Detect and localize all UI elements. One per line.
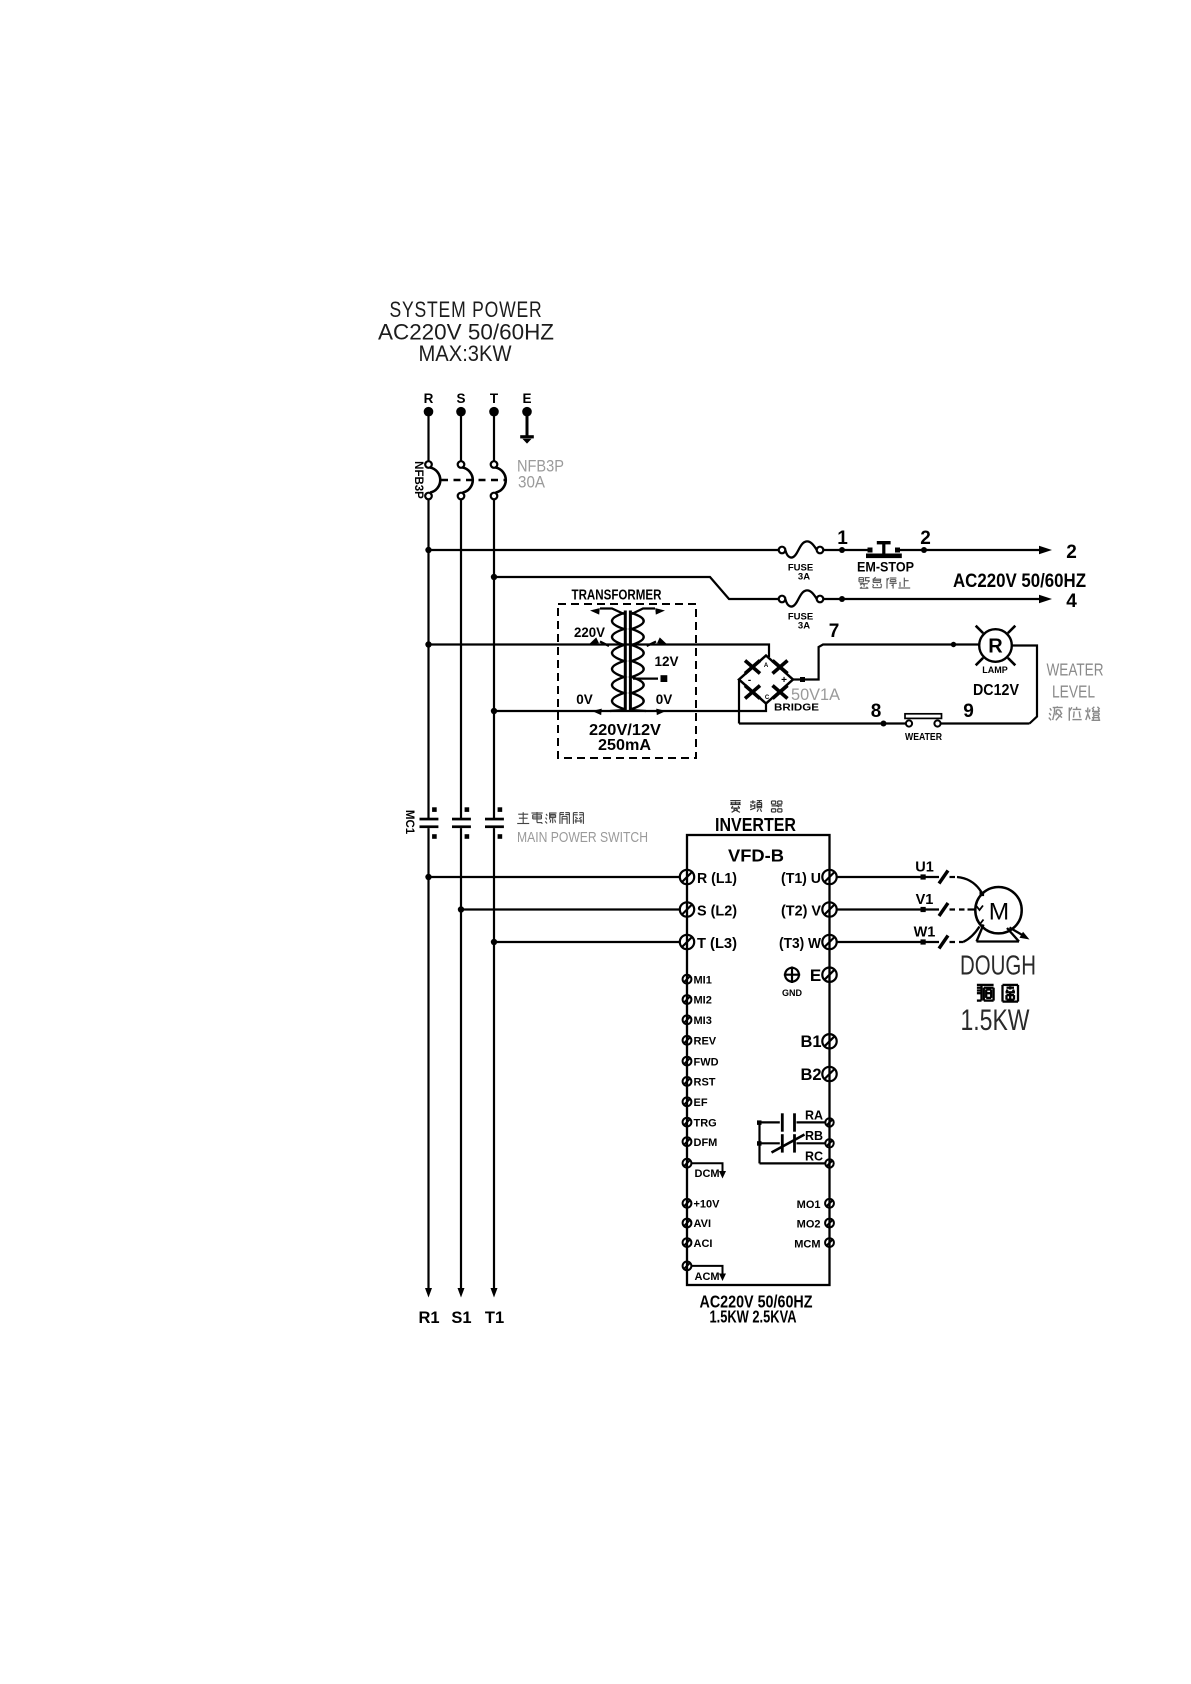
wire R column NFB to MC1 [427,499,429,818]
terminal ACM with common arrow [683,1262,726,1284]
svg-text:3A: 3A [798,572,810,583]
label inverter chinese [730,801,740,813]
wire bottom rail to water switch [739,722,906,724]
terminal MCM [794,1238,834,1250]
terminal REV [683,1036,717,1048]
svg-text:RB: RB [805,1129,823,1143]
transformer secondary coil [632,613,644,709]
breaker linkage dashed line [441,479,506,481]
junction R line2 [425,547,431,553]
wire T column MC1 to bottom [493,828,495,1289]
wire E to ground [526,414,529,436]
svg-text:MAX:3KW: MAX:3KW [419,341,512,366]
wire fuse F2 to arrow 4 [823,598,1040,600]
svg-text:T (L3): T (L3) [697,936,737,952]
junction before lamp [951,642,956,647]
svg-text:R: R [988,636,1003,658]
terminal +10V [683,1199,721,1211]
node 8 [871,701,887,727]
svg-text:2: 2 [920,528,931,549]
svg-text:4: 4 [1066,591,1077,612]
label water level chinese [1049,706,1063,720]
terminal T(L3) [680,935,737,952]
svg-text:W1: W1 [914,925,936,941]
water level switch [905,714,942,743]
svg-text:(T2) V: (T2) V [781,904,821,920]
terminal S(L2) [680,902,737,919]
wire bridge minus down [738,680,740,724]
svg-text:1.5KW 2.5KVA: 1.5KW 2.5KVA [710,1306,797,1326]
svg-text:S (L2): S (L2) [697,904,737,920]
lamp R DC12V [976,626,1016,675]
wire R to R(L1) [429,876,680,878]
svg-text:30A: 30A [518,473,546,492]
breaker NFB3P pole S [458,461,473,499]
svg-text:V1: V1 [916,892,934,908]
svg-text:-: - [748,675,751,686]
terminal TRG [683,1117,717,1129]
svg-text:MC1: MC1 [403,810,415,835]
wire S terminal to NFB [460,414,462,461]
terminal E [522,391,532,417]
terminal MO2 [797,1219,834,1231]
junction R line220V [425,641,431,647]
terminal (T2)V [781,902,837,919]
svg-text:12V: 12V [654,654,678,669]
svg-text:WEATER: WEATER [905,731,942,743]
svg-text:LAMP: LAMP [982,665,1008,675]
svg-text:FWD: FWD [694,1056,719,1068]
label WEATER LEVEL [1047,660,1104,702]
node 1 [837,528,848,553]
svg-text:DCM: DCM [695,1168,720,1180]
svg-text:T: T [490,391,499,406]
svg-text:1.5KW: 1.5KW [961,1004,1031,1037]
connector square on bridge output [800,677,805,682]
terminal MI1 [683,974,712,986]
svg-text:ACM: ACM [695,1271,720,1283]
terminal MO1 [797,1199,834,1211]
svg-text:M: M [989,899,1009,926]
wire EM-STOP to arrow 2 [900,549,1040,551]
arrow line1 output [1039,546,1052,555]
transformer primary coil [612,613,624,709]
ground symbol E [520,435,534,443]
terminal MI3 [683,1015,712,1027]
wire S to S(L2) [461,908,680,910]
svg-text:E: E [522,391,531,406]
wire 0V line T to bridge bottom [494,702,766,711]
bridge rectifier 50V1A [739,656,793,704]
label dough chinese [977,985,994,1001]
svg-text:WEATER: WEATER [1047,660,1104,680]
arrow R1 [425,1288,432,1298]
terminal S [456,391,466,417]
wire S column NFB to MC1 [460,499,462,818]
svg-text:MCM: MCM [794,1238,820,1250]
breaker NFB3P pole R [425,461,440,499]
svg-text:AC220V 50/60HZ: AC220V 50/60HZ [953,571,1086,592]
node 2 [920,528,931,553]
EM-STOP pushbutton [857,541,914,575]
svg-text:EM-STOP: EM-STOP [857,560,914,575]
arrow T1 [491,1288,498,1298]
terminal FWD [683,1056,719,1068]
wire T column NFB to MC1 [493,499,495,818]
svg-text:AVI: AVI [694,1218,712,1230]
svg-text:250mA: 250mA [598,737,651,754]
svg-text:B1: B1 [800,1033,821,1051]
svg-text:DC12V: DC12V [973,682,1020,699]
wire 220V line R to bridge top [429,645,770,658]
svg-text:BRIDGE: BRIDGE [774,703,819,714]
wire line1 R to fuse F1 [429,549,779,551]
terminal (T1)U [781,870,837,887]
svg-text:MI3: MI3 [694,1015,712,1027]
breaker NFB3P pole T [491,461,506,499]
breaker label NFB3P 30A [517,457,564,492]
wire bridge plus to lamp line [793,645,979,680]
relay common wire RC [760,1162,826,1164]
motor M dough mixer [975,887,1021,942]
terminal DFM [683,1137,718,1149]
svg-text:50V1A: 50V1A [791,686,840,704]
title block: system power heading [378,297,554,366]
terminal MI2 [683,995,712,1007]
terminal EF [683,1097,708,1109]
svg-text:VFD-B: VFD-B [728,846,784,866]
transformer dashed box [558,604,696,758]
secondary top lead [632,608,665,614]
contactor MC1 pole T [485,807,504,839]
primary bottom lead [592,709,624,715]
svg-text:DOUGH: DOUGH [960,950,1036,981]
primary 220V tap arrow [589,637,609,646]
svg-text:E: E [810,966,821,985]
terminal RB [805,1129,834,1148]
svg-text:R1: R1 [418,1309,439,1327]
wire W1 phase [837,920,984,949]
terminal RA [805,1109,834,1127]
svg-text:R (L1): R (L1) [697,871,737,887]
svg-text:T1: T1 [485,1309,504,1327]
relay common rail [757,1120,762,1163]
wire water switch to lamp return [941,722,1030,724]
wire R column MC1 to bottom [427,828,429,1289]
secondary bottom lead [632,709,666,715]
contactor MC1 pole S [452,807,471,839]
wire R terminal to NFB [427,414,429,461]
inverter VFD-B box [687,835,830,1285]
svg-text:RC: RC [805,1150,823,1164]
svg-text:ACI: ACI [694,1238,713,1250]
terminal (T3)W [779,935,837,952]
svg-text:1: 1 [837,528,848,549]
svg-text:A: A [764,663,769,669]
terminal T [489,391,499,417]
wire T to T(L3) [494,941,680,943]
junction T to inverter [491,939,497,945]
svg-text:REV: REV [694,1036,717,1048]
relay NO contact RA [760,1113,826,1131]
svg-text:7: 7 [829,621,840,642]
primary top lead [590,608,624,614]
wire fuse F1 to EM-STOP [823,549,868,551]
svg-text:RST: RST [694,1077,716,1089]
svg-text:MO1: MO1 [797,1199,821,1211]
svg-text:DFM: DFM [694,1137,718,1149]
terminal B2 [800,1066,836,1084]
svg-text:NFB3P: NFB3P [412,461,424,499]
svg-text:GND: GND [782,988,803,998]
svg-text:+10V: +10V [694,1199,721,1211]
svg-text:MO2: MO2 [797,1219,821,1231]
svg-text:0V: 0V [576,692,593,707]
svg-text:LEVEL: LEVEL [1052,682,1095,702]
svg-text:9: 9 [963,701,974,722]
junction T line4 [491,574,497,580]
svg-text:EF: EF [694,1097,708,1109]
svg-text:RA: RA [805,1109,823,1123]
wire S column MC1 to bottom [460,828,462,1289]
arrow line2 output [1039,595,1052,604]
svg-text:MAIN POWER SWITCH: MAIN POWER SWITCH [517,829,648,846]
junction R to inverter [425,874,431,880]
svg-text:INVERTER: INVERTER [715,814,796,835]
motor ground arrow [1010,928,1030,940]
svg-text:+: + [781,675,787,686]
svg-text:(T1) U: (T1) U [781,871,821,887]
terminal DCM with common arrow [683,1159,726,1180]
node on line 4 [839,596,845,602]
EM-STOP chinese label [859,578,870,589]
wire lamp to right down [1012,646,1037,724]
junction S to inverter [458,906,464,912]
ground symbol GND [782,967,803,999]
terminal R [424,391,434,417]
wire T terminal to NFB [493,414,495,461]
relay NC contact RB [760,1134,826,1152]
svg-text:TRG: TRG [694,1117,717,1129]
svg-text:C: C [765,695,770,701]
svg-text:8: 8 [871,701,882,722]
wire V1 phase [837,892,983,916]
arrow S1 [458,1288,465,1298]
junction T line0V [491,708,497,714]
transformer core [625,611,630,712]
contactor MC1 pole R [420,807,439,839]
svg-text:(T3) W: (T3) W [779,936,821,952]
svg-text:3A: 3A [798,621,810,632]
terminal RST [683,1077,716,1089]
svg-text:0V: 0V [656,692,673,707]
terminal RC [805,1150,834,1168]
wire U1 phase [837,860,984,897]
secondary 12V lead [633,675,667,682]
svg-text:SYSTEM POWER: SYSTEM POWER [390,297,543,322]
svg-text:U1: U1 [915,860,934,876]
label main power switch chinese [517,812,529,823]
svg-text:MI2: MI2 [694,995,712,1007]
terminal AVI [683,1218,711,1230]
secondary top tap arrow [647,637,667,646]
terminal E inverter [810,966,837,985]
svg-text:2: 2 [1066,542,1077,563]
fuse F1 3A [779,541,824,582]
wire line2 T to fuse F2 [494,577,779,599]
terminal ACI [683,1238,713,1250]
svg-text:MI1: MI1 [694,974,712,986]
svg-text:S: S [456,391,465,406]
fuse F2 3A [779,590,824,631]
svg-text:B2: B2 [800,1066,821,1084]
terminal R(L1) [680,870,737,887]
svg-text:S1: S1 [451,1309,471,1327]
svg-text:TRANSFORMER: TRANSFORMER [572,588,662,604]
svg-text:220V: 220V [574,625,605,640]
svg-text:R: R [424,391,434,406]
terminal B1 [800,1033,836,1051]
